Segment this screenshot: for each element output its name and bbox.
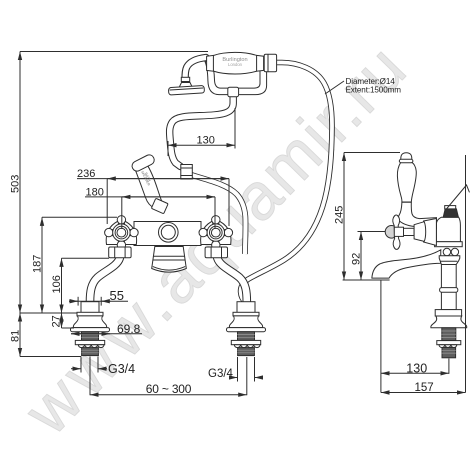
svg-text:187: 187 <box>32 255 44 273</box>
dim 27 <box>62 313 75 328</box>
dim 180 <box>85 197 215 229</box>
dim 157 <box>381 155 466 393</box>
svg-text:G3/4: G3/4 <box>208 368 234 380</box>
dim 236 <box>77 179 229 226</box>
svg-text:157: 157 <box>415 382 434 394</box>
left cross handle <box>105 216 139 250</box>
side body <box>436 217 460 242</box>
svg-text:503: 503 <box>10 175 22 193</box>
svg-text:130: 130 <box>406 362 427 376</box>
hose hex union nut <box>181 165 193 180</box>
dim 69.8 <box>71 333 142 335</box>
annotation leader <box>325 81 344 94</box>
pointer mark <box>446 185 469 210</box>
right leg tube <box>217 258 247 302</box>
dim 60~300 <box>90 357 247 396</box>
dim 130 side <box>381 359 449 374</box>
right cross handle <box>199 216 233 250</box>
spout (front, anti-splash cone) <box>152 247 187 273</box>
svg-text:236: 236 <box>77 168 95 180</box>
dim 187 <box>42 217 117 313</box>
dim 106 <box>62 258 110 313</box>
dim G3/4 left <box>71 357 107 373</box>
left leg assembly <box>71 302 110 356</box>
svg-text:81: 81 <box>10 330 22 342</box>
svg-text:92: 92 <box>351 253 363 265</box>
tube from hex union to body <box>189 174 246 254</box>
right leg assembly <box>227 302 266 356</box>
diverter lever (porcelain, front view) <box>130 153 168 214</box>
side leg <box>431 288 467 358</box>
dim 55 <box>69 297 128 306</box>
svg-text:130: 130 <box>197 135 215 147</box>
side diverter knob (dark) <box>445 206 456 209</box>
dim 92 <box>358 232 386 281</box>
left union hex nut <box>109 247 131 258</box>
svg-text:106: 106 <box>51 275 63 293</box>
side spout <box>372 250 441 278</box>
shower head neck <box>181 58 206 85</box>
side handle bonnet <box>424 219 437 246</box>
mixer body bar <box>134 222 201 246</box>
svg-text:27: 27 <box>51 315 63 327</box>
handset cradle (U bracket) <box>205 62 267 95</box>
right union hex nut <box>205 247 227 258</box>
cradle socket circles on body <box>159 223 179 243</box>
side cross handle <box>385 215 426 249</box>
svg-text:Extent:1500mm: Extent:1500mm <box>346 86 402 95</box>
side view unit <box>372 153 469 358</box>
side porcelain lever (urn) <box>397 162 416 202</box>
right valve skirt <box>201 220 231 245</box>
side lever elbow arm <box>398 202 436 228</box>
svg-text:G3/4: G3/4 <box>108 362 135 376</box>
svg-text:London: London <box>228 62 243 67</box>
svg-text:180: 180 <box>86 186 104 198</box>
dim G3/4 right <box>230 357 263 382</box>
dim 503 <box>20 52 208 314</box>
svg-text:245: 245 <box>334 206 346 224</box>
svg-text:60 ~ 300: 60 ~ 300 <box>146 382 192 396</box>
svg-text:69.8: 69.8 <box>117 322 141 336</box>
svg-text:55: 55 <box>110 288 124 303</box>
dim 245 <box>343 153 400 281</box>
left valve skirt <box>106 220 136 245</box>
cradle boss <box>228 87 239 97</box>
handset barrel <box>207 52 277 74</box>
shower head <box>168 83 204 96</box>
dim 81 <box>20 313 81 357</box>
shower hose <box>241 63 332 303</box>
dim 130 top <box>168 108 235 156</box>
left leg tube <box>90 258 120 302</box>
cradle drop tube <box>170 94 234 167</box>
